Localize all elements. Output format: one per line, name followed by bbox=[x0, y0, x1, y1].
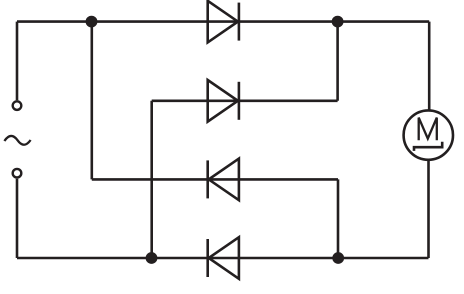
node junction dot bottom-left bbox=[146, 252, 158, 264]
diode D1 (top, pointing right) bbox=[208, 1, 239, 43]
AC source terminal bottom (open circle) bbox=[13, 169, 22, 178]
wire node A vertical to diode D3 row bbox=[91, 22, 94, 180]
wire diode D3 output vertical down to bottom node bbox=[337, 179, 340, 258]
wire motor bottom to bottom bus bbox=[427, 160, 430, 258]
motor M commutator step line bbox=[414, 142, 442, 151]
diode D2 (pointing right) bbox=[208, 80, 239, 122]
wire right side down to motor bbox=[428, 22, 431, 111]
wire diode D2 anode vertical down to bottom node bbox=[150, 101, 153, 258]
wire diode D3 row horizontal bbox=[92, 178, 338, 181]
wire top bus bbox=[17, 20, 429, 23]
AC source tilde symbol bbox=[4, 136, 30, 145]
diode D3 (pointing left) bbox=[208, 159, 239, 201]
wire diode D2 cathode vertical up to top node bbox=[336, 22, 339, 101]
node junction dot top-left bbox=[86, 16, 98, 28]
motor M circle body bbox=[404, 110, 453, 159]
motor M letter label (drawn as strokes) bbox=[419, 118, 437, 141]
node junction dot top-right bbox=[332, 16, 344, 28]
AC source terminal top (open circle) bbox=[13, 101, 22, 110]
wire left vertical lower (AC bottom terminal to bottom bus) bbox=[16, 179, 19, 258]
wire bottom bus bbox=[17, 257, 429, 260]
diode D4 (bottom, pointing left) bbox=[208, 237, 239, 279]
wire diode D2 row horizontal bbox=[152, 100, 338, 103]
wire left vertical upper (AC top terminal to top bus) bbox=[16, 22, 19, 101]
node junction dot bottom-right bbox=[332, 252, 344, 264]
